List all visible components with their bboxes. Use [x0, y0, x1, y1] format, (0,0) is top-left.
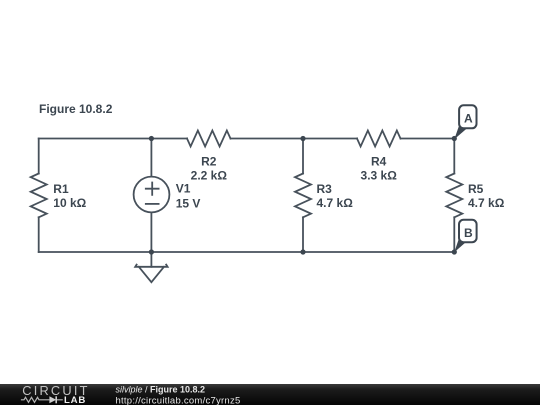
- svg-text:R4: R4: [371, 155, 387, 169]
- svg-text:15 V: 15 V: [176, 197, 201, 211]
- V1 plus sign: [146, 183, 159, 195]
- resistor R1: [31, 174, 47, 218]
- wire R5 top lead: [453, 139, 455, 174]
- wire V1 top lead: [150, 139, 152, 177]
- wire R3 top lead: [302, 139, 304, 174]
- node dot top R3: [300, 136, 305, 141]
- svg-text:LAB: LAB: [64, 395, 86, 405]
- flag A box: [459, 105, 476, 128]
- wire left vertical top lead: [38, 139, 40, 174]
- svg-text:R5: R5: [468, 182, 484, 196]
- wire R3 bottom lead: [302, 217, 304, 252]
- resistor R5: [446, 174, 462, 218]
- svg-text:A: A: [464, 112, 473, 126]
- svg-text:2.2 kΩ: 2.2 kΩ: [191, 169, 228, 183]
- node dot top V1: [149, 136, 154, 141]
- footer logo resistor glyph: [21, 397, 44, 402]
- flag A pointer: [454, 123, 466, 139]
- footer logo diode glyph: [44, 399, 63, 401]
- wire top-right segment: [401, 138, 455, 140]
- flag B pointer: [454, 237, 466, 253]
- wire top-left segment: [39, 138, 187, 140]
- svg-text:4.7 kΩ: 4.7 kΩ: [317, 196, 354, 210]
- node dot bottom B: [452, 249, 457, 254]
- svg-text:R1: R1: [53, 182, 69, 196]
- svg-text:B: B: [464, 226, 473, 240]
- svg-text:10 kΩ: 10 kΩ: [53, 196, 86, 210]
- svg-text:4.7 kΩ: 4.7 kΩ: [468, 196, 505, 210]
- ground stem: [150, 252, 152, 267]
- flag B box: [459, 220, 477, 242]
- wire top-middle segment: [231, 138, 358, 140]
- node dot bottom R3: [300, 249, 305, 254]
- wire V1 bottom lead: [150, 213, 152, 252]
- resistor R3: [295, 174, 311, 218]
- resistor R4: [357, 131, 401, 147]
- svg-text:V1: V1: [176, 182, 191, 196]
- svg-text:R2: R2: [201, 155, 217, 169]
- wire R5 bottom lead: [453, 217, 455, 252]
- voltage source V1 circle: [134, 177, 170, 213]
- svg-text:Figure 10.8.2: Figure 10.8.2: [39, 102, 113, 116]
- svg-text:R3: R3: [317, 182, 333, 196]
- ground symbol: [135, 265, 167, 283]
- wire left vertical bottom lead: [38, 217, 40, 252]
- svg-text:http://circuitlab.com/c7yrnz5: http://circuitlab.com/c7yrnz5: [116, 395, 241, 405]
- node dot bottom V1: [149, 249, 154, 254]
- V1 minus sign: [146, 203, 159, 205]
- wire bottom: [39, 251, 455, 253]
- svg-text:silvlple / Figure 10.8.2: silvlple / Figure 10.8.2: [116, 385, 206, 395]
- resistor R2: [187, 131, 231, 147]
- node dot top A: [452, 136, 457, 141]
- svg-text:3.3 kΩ: 3.3 kΩ: [361, 169, 398, 183]
